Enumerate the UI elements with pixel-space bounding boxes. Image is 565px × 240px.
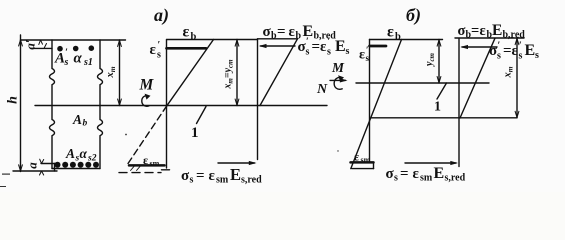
svg-text:=: = — [400, 166, 409, 182]
eps_sm box bottom line (b) — [352, 168, 374, 170]
strain diagram zero line (vertical) — [166, 40, 168, 168]
svg-text:б): б) — [406, 5, 421, 26]
a' dimension arrow marks — [39, 40, 43, 45]
strain diagonal (b) full length — [351, 40, 402, 169]
stress diagram b: vertical line — [458, 39, 460, 167]
svg-text:α: α — [74, 51, 83, 67]
svg-text:ε: ε — [209, 168, 216, 184]
dimension line x_m (b right) — [516, 38, 518, 118]
leader for line 1 — [197, 107, 207, 124]
dimension line x=y (middle) — [236, 40, 238, 106]
eps'_s thick bar — [167, 47, 207, 50]
svg-text:s,red: s,red — [445, 173, 466, 184]
svg-text:h: h — [6, 96, 21, 104]
svg-text:E: E — [525, 42, 536, 59]
svg-text:ε: ε — [183, 24, 190, 41]
svg-text:M: M — [139, 77, 155, 94]
dimension line x_m at right of section — [119, 40, 121, 106]
svg-text:A: A — [65, 146, 75, 161]
stress diagram a: vertical line — [257, 39, 259, 160]
eps'_s thick bar (b) — [370, 45, 387, 48]
svg-text:s: s — [157, 50, 161, 61]
strain top line — [370, 39, 443, 41]
bottom extension line — [13, 170, 57, 172]
svg-text:а): а) — [154, 5, 169, 26]
svg-text:1: 1 — [191, 125, 199, 141]
extension line at top rebar level (for a') — [31, 47, 53, 49]
svg-text:s1: s1 — [83, 57, 93, 68]
svg-text:=: = — [503, 43, 512, 59]
svg-text:ε: ε — [150, 42, 157, 58]
svg-text:=: = — [471, 23, 479, 39]
beam outline right edge with break marks — [98, 40, 103, 169]
svg-text:s: s — [497, 51, 501, 62]
a dimension arrow marks — [40, 159, 44, 163]
moment arrowhead — [145, 94, 151, 100]
sigma'_s arrow (pointing left) — [261, 45, 296, 47]
svg-text:E: E — [335, 38, 346, 55]
svg-text:ε: ε — [320, 39, 327, 55]
stress diagonal — [260, 39, 298, 106]
eps_sm thick underline — [129, 164, 165, 167]
scan noise specks — [0, 134, 339, 187]
svg-text:s: s — [394, 173, 398, 184]
eps_sm box right edge (b) — [373, 162, 375, 168]
zero line bottom serif — [162, 169, 170, 171]
svg-text:s: s — [327, 47, 331, 58]
dashed bottom line — [119, 172, 161, 174]
leader for 1 (b) — [437, 83, 447, 99]
svg-text:b,red: b,red — [503, 30, 526, 41]
bottom arrow sigma_s (pointing right) — [218, 162, 255, 164]
svg-text:=: = — [312, 39, 321, 55]
dimension h top arrow — [19, 40, 23, 46]
svg-text:s: s — [64, 57, 69, 68]
svg-text:b: b — [191, 32, 197, 43]
svg-text:s: s — [366, 53, 370, 63]
strain diagonal dashed extension below axis — [127, 106, 167, 165]
svg-text:A: A — [72, 112, 82, 127]
svg-text:ε: ε — [289, 24, 296, 40]
svg-text:sm: sm — [420, 173, 433, 184]
line 1 (b) — [356, 82, 489, 84]
svg-text:s,red: s,red — [241, 175, 262, 186]
strain zero line (vertical) — [369, 40, 371, 162]
beam bottom edge — [52, 168, 100, 170]
svg-text:b: b — [395, 32, 401, 43]
stress top edge — [258, 38, 298, 40]
svg-text:s: s — [306, 47, 310, 58]
sigma'_s arrow (b, pointing left) — [462, 46, 497, 48]
svg-text:1: 1 — [434, 100, 441, 115]
svg-text:s: s — [190, 175, 194, 186]
svg-text:E: E — [230, 165, 241, 184]
svg-text:N: N — [316, 82, 328, 97]
dimension line h (vertical at left) — [20, 35, 22, 172]
svg-text:ε: ε — [413, 166, 420, 182]
svg-text:s: s — [519, 51, 523, 62]
svg-text:σ: σ — [458, 23, 466, 39]
stress top line (b) — [455, 37, 524, 39]
eps_sm thick underline (b) — [351, 161, 374, 164]
dimension h bottom arrow — [19, 165, 23, 171]
top edge of section + extension lines — [21, 39, 126, 41]
neutral axis line through section and diagram a — [35, 105, 327, 107]
svg-text:α: α — [80, 146, 88, 161]
bottom arrow sigma_s (b, pointing right) — [405, 162, 456, 164]
svg-text:E: E — [492, 22, 502, 39]
svg-text:sm: sm — [216, 175, 229, 186]
svg-text:a: a — [25, 162, 40, 169]
dimension line y_cm — [438, 40, 440, 84]
zero level lower line (b) — [371, 117, 517, 119]
stress diagonal (b) — [460, 38, 495, 118]
svg-text:A: A — [54, 51, 65, 67]
beam outline left edge with break marks — [50, 40, 55, 169]
svg-text:=: = — [277, 24, 286, 40]
hatch ticks under eps_sm bar — [131, 166, 141, 171]
svg-text:ε: ε — [359, 48, 365, 63]
top reinforcement bars (3 dots) — [57, 45, 94, 51]
svg-text:ε: ε — [480, 23, 486, 39]
svg-text:s: s — [346, 46, 350, 57]
moment curved arrow — [142, 96, 149, 107]
strain top line — [167, 39, 258, 41]
svg-text:b: b — [83, 119, 88, 129]
strain diagonal (solid above axis) — [167, 40, 214, 106]
svg-text:ε: ε — [387, 24, 394, 41]
moment curved arrow (cluster) — [334, 77, 342, 89]
bottom reinforcement bars (row of dots) — [55, 162, 100, 168]
small vertical tick of a dimension box — [54, 164, 56, 172]
extension line at bottom rebar level (for a) — [41, 163, 56, 165]
svg-text:M: M — [331, 60, 345, 75]
svg-text:=: = — [196, 168, 205, 184]
svg-text:s: s — [535, 50, 539, 61]
N force arrow — [330, 79, 346, 81]
svg-text:a′: a′ — [23, 39, 38, 50]
svg-text:E: E — [434, 165, 445, 182]
